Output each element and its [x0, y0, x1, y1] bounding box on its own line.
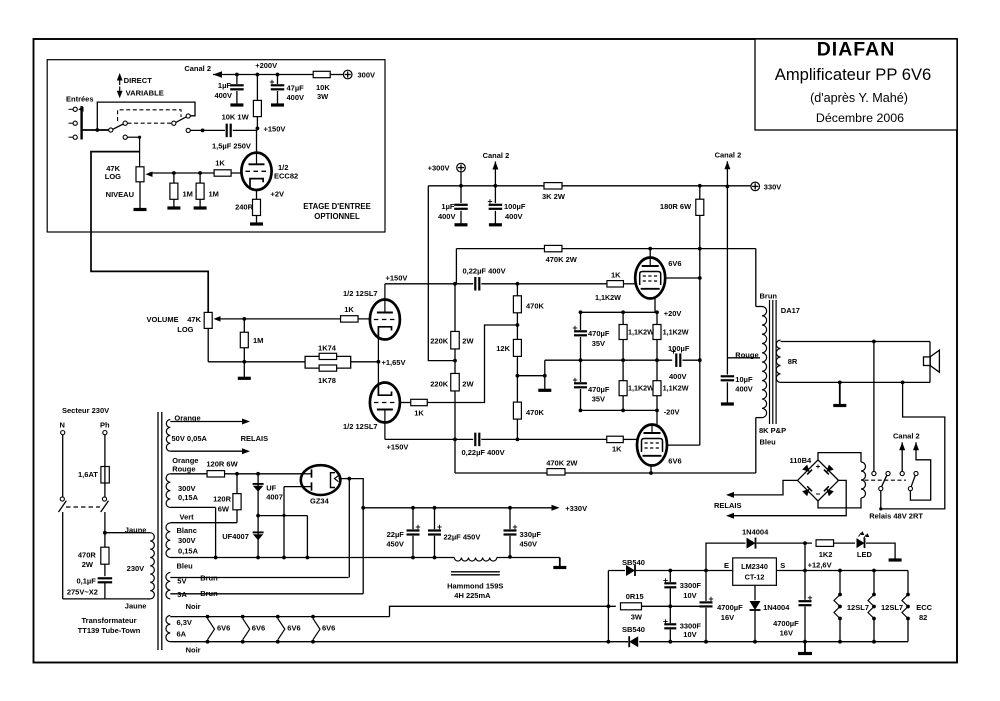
- svg-text:DA17: DA17: [781, 306, 800, 315]
- svg-text:400V: 400V: [214, 91, 232, 100]
- svg-text:400V: 400V: [287, 93, 305, 102]
- svg-text:1,1K2W: 1,1K2W: [628, 384, 654, 393]
- svg-text:OPTIONNEL: OPTIONNEL: [314, 212, 360, 221]
- svg-text:RELAIS: RELAIS: [241, 434, 269, 443]
- svg-text:2W: 2W: [462, 336, 474, 345]
- svg-text:1K: 1K: [344, 305, 354, 314]
- svg-text:470R: 470R: [78, 551, 97, 560]
- svg-text:12K: 12K: [496, 344, 510, 353]
- svg-text:6V6: 6V6: [252, 624, 265, 633]
- svg-text:VOLUME: VOLUME: [147, 315, 179, 324]
- svg-text:3W: 3W: [631, 612, 643, 621]
- svg-text:450V: 450V: [386, 540, 404, 549]
- svg-text:470K: 470K: [526, 408, 545, 417]
- svg-text:220K: 220K: [430, 336, 449, 345]
- svg-text:10K: 10K: [316, 83, 330, 92]
- svg-text:SB540: SB540: [622, 625, 645, 634]
- svg-text:1,1K2W: 1,1K2W: [628, 327, 654, 336]
- svg-text:1,5µF 250V: 1,5µF 250V: [212, 142, 251, 151]
- svg-text:Canal 2: Canal 2: [715, 151, 742, 160]
- svg-text:47K: 47K: [187, 315, 201, 324]
- svg-text:Amplificateur PP 6V6: Amplificateur PP 6V6: [775, 65, 932, 84]
- svg-text:12SL7: 12SL7: [881, 603, 903, 612]
- svg-text:450V: 450V: [520, 540, 538, 549]
- svg-text:+200V: +200V: [255, 61, 277, 70]
- svg-text:+300V: +300V: [428, 164, 450, 173]
- svg-text:-20V: -20V: [664, 407, 680, 416]
- svg-text:0,1µF: 0,1µF: [76, 576, 96, 585]
- svg-text:S: S: [780, 561, 785, 570]
- svg-text:0R15: 0R15: [626, 592, 644, 601]
- svg-text:6V6: 6V6: [668, 457, 681, 466]
- svg-text:6W: 6W: [218, 505, 230, 514]
- svg-text:400V: 400V: [669, 372, 687, 381]
- svg-text:1M: 1M: [209, 190, 219, 199]
- svg-text:10V: 10V: [683, 630, 696, 639]
- svg-text:230V: 230V: [127, 564, 145, 573]
- svg-text:300V: 300V: [178, 484, 196, 493]
- svg-text:DIRECT: DIRECT: [124, 76, 153, 85]
- svg-text:LOG: LOG: [177, 325, 193, 334]
- svg-text:470K 2W: 470K 2W: [546, 458, 578, 467]
- svg-text:6V6: 6V6: [287, 624, 300, 633]
- svg-text:1K74: 1K74: [318, 343, 337, 352]
- svg-text:50V 0,05A: 50V 0,05A: [172, 434, 208, 443]
- svg-text:Entrées: Entrées: [66, 95, 94, 104]
- svg-text:1K2: 1K2: [819, 550, 833, 559]
- svg-text:Orange: Orange: [174, 414, 200, 423]
- svg-text:1,1K2W: 1,1K2W: [663, 384, 689, 393]
- svg-text:100µF: 100µF: [668, 344, 690, 353]
- svg-text:180R 6W: 180R 6W: [660, 202, 692, 211]
- svg-text:Bleu: Bleu: [177, 562, 194, 571]
- svg-text:Jaune: Jaune: [125, 601, 147, 610]
- svg-text:ETAGE D'ENTREE: ETAGE D'ENTREE: [303, 202, 371, 211]
- svg-text:2W: 2W: [82, 560, 94, 569]
- svg-text:UF4007: UF4007: [222, 532, 249, 541]
- svg-text:220K: 220K: [430, 379, 449, 388]
- svg-text:4700µF: 4700µF: [717, 603, 743, 612]
- svg-text:+2V: +2V: [271, 190, 285, 199]
- svg-text:4700µF: 4700µF: [773, 619, 799, 628]
- svg-text:10V: 10V: [683, 591, 696, 600]
- svg-text:Relais 48V 2RT: Relais 48V 2RT: [869, 512, 923, 521]
- svg-text:Bleu: Bleu: [760, 438, 777, 447]
- svg-text:1K78: 1K78: [318, 376, 336, 385]
- svg-text:8R: 8R: [788, 357, 798, 366]
- svg-text:+330V: +330V: [565, 504, 587, 513]
- svg-text:1K: 1K: [612, 445, 622, 454]
- svg-text:Noir: Noir: [186, 602, 201, 611]
- svg-text:6,3V: 6,3V: [177, 618, 192, 627]
- svg-text:SB540: SB540: [622, 558, 645, 567]
- svg-text:470µF: 470µF: [588, 385, 610, 394]
- svg-text:2W: 2W: [462, 379, 474, 388]
- svg-text:Secteur 230V: Secteur 230V: [62, 406, 109, 415]
- svg-text:6A: 6A: [177, 629, 187, 638]
- svg-text:330V: 330V: [764, 183, 782, 192]
- svg-text:8K P&P: 8K P&P: [759, 426, 786, 435]
- svg-text:1µF: 1µF: [218, 81, 231, 90]
- svg-text:RELAIS: RELAIS: [714, 501, 742, 510]
- svg-text:+12,6V: +12,6V: [808, 561, 832, 570]
- svg-text:Canal 2: Canal 2: [483, 151, 510, 160]
- svg-text:470K: 470K: [526, 302, 545, 311]
- svg-text:6V6: 6V6: [322, 624, 335, 633]
- svg-text:275V~X2: 275V~X2: [67, 588, 98, 597]
- svg-text:1K: 1K: [414, 409, 424, 418]
- svg-text:1µF: 1µF: [441, 202, 454, 211]
- svg-text:120R: 120R: [213, 495, 232, 504]
- svg-text:Ph: Ph: [100, 421, 110, 430]
- svg-text:3K 2W: 3K 2W: [542, 192, 566, 201]
- svg-text:1K: 1K: [215, 159, 225, 168]
- svg-text:LM2340: LM2340: [741, 562, 768, 571]
- svg-text:35V: 35V: [592, 395, 605, 404]
- svg-text:22µF: 22µF: [387, 530, 405, 539]
- svg-text:+1,65V: +1,65V: [382, 358, 406, 367]
- svg-text:400V: 400V: [438, 212, 456, 221]
- svg-text:1,6AT: 1,6AT: [78, 470, 98, 479]
- svg-text:110B4: 110B4: [790, 456, 813, 465]
- svg-text:300V: 300V: [178, 536, 196, 545]
- svg-text:TT139 Tube-Town: TT139 Tube-Town: [78, 626, 141, 635]
- svg-text:10K 1W: 10K 1W: [222, 113, 250, 122]
- svg-text:Transformateur: Transformateur: [81, 616, 136, 625]
- svg-text:1N4004: 1N4004: [742, 528, 769, 537]
- svg-text:VARIABLE: VARIABLE: [126, 89, 164, 98]
- svg-text:DIAFAN: DIAFAN: [817, 39, 896, 61]
- svg-text:12SL7: 12SL7: [847, 603, 869, 612]
- svg-text:Hammond 159S: Hammond 159S: [447, 581, 503, 590]
- svg-text:1,1K2W: 1,1K2W: [595, 293, 621, 302]
- svg-text:47µF: 47µF: [287, 84, 305, 93]
- svg-text:CT-12: CT-12: [745, 573, 765, 582]
- svg-text:1M: 1M: [183, 190, 193, 199]
- svg-text:120R 6W: 120R 6W: [206, 460, 238, 469]
- svg-text:4H 225mA: 4H 225mA: [454, 591, 491, 600]
- svg-text:+150V: +150V: [387, 443, 409, 452]
- svg-text:10µF: 10µF: [735, 375, 753, 384]
- svg-text:Blanc: Blanc: [177, 526, 197, 535]
- svg-text:3W: 3W: [317, 92, 329, 101]
- svg-text:UF: UF: [266, 484, 276, 493]
- svg-text:1K: 1K: [611, 270, 621, 279]
- svg-text:0,22µF 400V: 0,22µF 400V: [463, 267, 506, 276]
- svg-text:+20V: +20V: [664, 309, 682, 318]
- svg-text:Canal 2: Canal 2: [184, 64, 211, 73]
- svg-text:0,15A: 0,15A: [178, 547, 199, 556]
- svg-text:6V6: 6V6: [217, 624, 230, 633]
- svg-text:240R: 240R: [235, 203, 254, 212]
- svg-text:Noir: Noir: [186, 646, 201, 655]
- svg-text:1N4004: 1N4004: [763, 603, 790, 612]
- svg-text:1/2 12SL7: 1/2 12SL7: [343, 289, 378, 298]
- svg-text:300V: 300V: [358, 71, 376, 80]
- svg-text:0,22µF 400V: 0,22µF 400V: [462, 448, 505, 457]
- svg-text:LED: LED: [857, 550, 873, 559]
- svg-text:ECC82: ECC82: [274, 172, 298, 181]
- svg-text:400V: 400V: [735, 384, 753, 393]
- svg-text:1M: 1M: [253, 336, 263, 345]
- svg-text:4007: 4007: [266, 493, 283, 502]
- svg-text:Canal 2: Canal 2: [893, 431, 920, 440]
- svg-text:Rouge: Rouge: [735, 351, 758, 360]
- svg-text:22µF 450V: 22µF 450V: [444, 533, 481, 542]
- svg-text:400V: 400V: [505, 212, 523, 221]
- svg-text:35V: 35V: [592, 339, 605, 348]
- svg-text:Rouge: Rouge: [172, 464, 195, 473]
- svg-text:470K 2W: 470K 2W: [546, 255, 578, 264]
- svg-text:6V6: 6V6: [668, 259, 681, 268]
- svg-text:+150V: +150V: [386, 274, 408, 283]
- svg-text:ECC: ECC: [916, 603, 932, 612]
- svg-text:GZ34: GZ34: [310, 497, 330, 506]
- svg-text:82: 82: [919, 613, 927, 622]
- svg-text:470µF: 470µF: [588, 329, 610, 338]
- svg-text:100µF: 100µF: [504, 202, 526, 211]
- svg-text:1,1K2W: 1,1K2W: [663, 327, 689, 336]
- svg-text:0,15A: 0,15A: [178, 493, 199, 502]
- svg-text:330µF: 330µF: [520, 530, 542, 539]
- svg-text:LOG: LOG: [105, 172, 121, 181]
- svg-text:16V: 16V: [780, 629, 793, 638]
- svg-text:16V: 16V: [721, 613, 734, 622]
- svg-text:+150V: +150V: [264, 125, 286, 134]
- svg-text:NIVEAU: NIVEAU: [106, 190, 134, 199]
- svg-text:1/2 12SL7: 1/2 12SL7: [343, 422, 378, 431]
- svg-text:(d'après Y. Mahé): (d'après Y. Mahé): [810, 91, 908, 105]
- svg-text:Décembre 2006: Décembre 2006: [816, 111, 904, 125]
- svg-text:E: E: [724, 561, 729, 570]
- svg-text:Brun: Brun: [760, 291, 778, 300]
- svg-text:Vert: Vert: [180, 512, 195, 521]
- svg-text:N: N: [60, 421, 65, 430]
- svg-text:3300F: 3300F: [680, 621, 702, 630]
- svg-text:3300F: 3300F: [680, 581, 702, 590]
